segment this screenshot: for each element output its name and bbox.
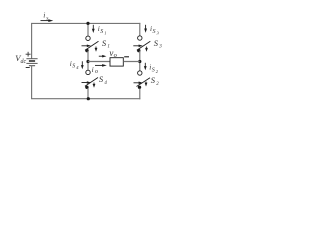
node left load junction (86, 60, 89, 63)
svg-text:S: S (152, 68, 155, 74)
svg-text:S: S (153, 29, 156, 35)
node top-left junction (86, 22, 89, 25)
wire left leg middle (87, 51, 89, 70)
switch S1 (82, 36, 99, 52)
battery plus sign (26, 52, 31, 57)
switch S4 (82, 70, 99, 89)
wire top horizontal (32, 22, 141, 24)
svg-text:2: 2 (156, 69, 159, 74)
node bottom-left junction (87, 97, 90, 100)
svg-text:3: 3 (159, 45, 162, 50)
wire left leg bottom stub (87, 88, 89, 99)
wire right leg top stub (139, 23, 141, 36)
svg-text:S: S (102, 38, 107, 48)
svg-text:4: 4 (76, 65, 79, 70)
svg-text:S: S (100, 29, 103, 35)
node right load junction (138, 60, 141, 63)
svg-text:1: 1 (104, 31, 106, 36)
wire bottom horizontal (32, 98, 141, 100)
arrow vo (voltage arrow above wire) (99, 55, 107, 58)
arrow iS1 (down) (92, 25, 95, 33)
svg-text:S: S (72, 63, 75, 69)
wire right leg middle (139, 51, 141, 71)
minus sign (vo polarity) (124, 56, 129, 58)
svg-text:o: o (95, 69, 98, 75)
svg-text:i: i (43, 11, 45, 20)
switch S2 (134, 71, 151, 89)
svg-text:2: 2 (156, 82, 159, 87)
svg-text:S: S (151, 75, 156, 85)
load box (110, 58, 123, 66)
wire load right (123, 61, 140, 63)
svg-text:S: S (99, 74, 104, 84)
svg-text:S: S (154, 38, 159, 48)
wire left leg top stub (87, 23, 89, 36)
arrow iS2 (down) (144, 63, 147, 71)
svg-text:dc: dc (21, 59, 27, 65)
wire right leg bottom stub (139, 89, 141, 100)
arrow io (95, 64, 107, 67)
battery minus sign (26, 67, 30, 69)
arrow is (41, 19, 54, 22)
wire left bottom (battery - to bottom wire) (31, 66, 33, 100)
switch S3 (133, 36, 150, 53)
wire load left (88, 61, 110, 63)
svg-text:4: 4 (104, 81, 107, 86)
svg-text:3: 3 (157, 31, 160, 36)
battery Vdc (26, 59, 37, 66)
svg-text:i: i (92, 65, 94, 74)
arrow iS3 (down) (144, 25, 147, 33)
arrow iS4 (down) (81, 61, 84, 69)
wire left top (battery + to top wire) (31, 23, 33, 59)
